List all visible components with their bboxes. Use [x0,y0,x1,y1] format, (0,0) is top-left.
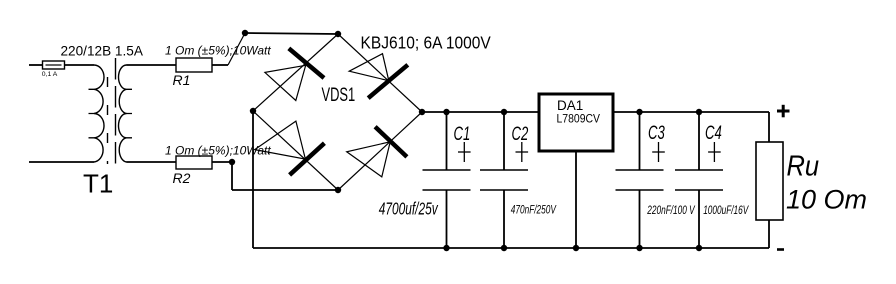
wire primary bottom lead [29,161,94,163]
capacitor C3 plates [616,170,664,190]
wire plus rail left segment [422,111,539,113]
node C3 top [636,109,642,115]
svg-text:VDS1: VDS1 [322,85,356,106]
label C2 polarity plus [516,142,529,162]
diode VD1 upper-left [265,48,324,100]
wire bridge edge top-left [253,34,338,111]
node bridge left vertex [250,108,256,114]
wire R2 to bottom AC node [232,189,338,191]
svg-text:L7809CV: L7809CV [557,113,601,126]
regulator DA1 box [539,94,613,151]
wire top AC rail [245,33,338,34]
svg-text:T1: T1 [83,169,113,199]
capacitor C2 bottom wire [503,190,505,248]
diode VD2 upper-right [349,54,408,98]
node junction dots [229,30,702,251]
svg-text:C3: C3 [648,123,665,144]
svg-text:DA1: DA1 [557,98,583,113]
node bridge bottom vertex [335,187,341,193]
svg-text:220nF/100 V: 220nF/100 V [646,204,695,217]
wire R2 right stub [212,161,232,163]
node R1 top rail junction [242,30,248,36]
node C2 bottom [501,245,507,251]
node bridge right vertex [419,109,425,115]
node C1 top [443,109,449,115]
capacitor C3 top wire [639,112,641,170]
diode VD4 lower-right [347,127,407,177]
resistor R2 body [176,156,212,169]
capacitor C4 plates [675,170,723,190]
svg-text:1 Om (±5%);10Watt: 1 Om (±5%);10Watt [165,144,271,158]
svg-text:C4: C4 [705,123,722,144]
svg-text:1 Om (±5%);10Watt: 1 Om (±5%);10Watt [165,44,271,58]
svg-text:Ru: Ru [787,149,820,182]
wire bottom minus rail [253,247,769,249]
wire secondary bottom to R2 [127,161,177,163]
wire bridge edge bottom-left [253,111,338,190]
wire minus drop from left vertex [252,111,254,248]
svg-text:KBJ610; 6A 1000V: KBJ610; 6A 1000V [361,32,492,52]
svg-text:10 Om: 10 Om [786,185,867,215]
label C1 polarity plus [458,142,471,162]
wire bridge edge top-right [338,34,422,112]
capacitor C4 bottom wire [698,190,700,248]
svg-text:C2: C2 [512,124,529,145]
node DA1 ground [573,245,579,251]
label plus output terminal [777,105,790,118]
svg-text:470nF/250V: 470nF/250V [511,204,557,217]
svg-text:1000uF/16V: 1000uF/16V [703,204,749,217]
capacitor C4 top wire [698,112,700,170]
label C3 polarity plus [652,142,665,162]
capacitor C2 top wire [503,112,505,170]
wire R2 down [231,162,233,190]
node C2 top [501,109,507,115]
transformer T1 primary winding [94,65,104,162]
node C3 bottom [636,245,642,251]
capacitor C1 top wire [446,112,448,170]
transformer core [108,58,116,164]
svg-text:4700uf/25v: 4700uf/25v [379,199,439,219]
wire secondary top to R1 [127,64,177,66]
capacitor C1 bottom wire [446,190,448,248]
wire bridge edge bottom-right [338,112,422,190]
label minus output terminal [777,248,784,251]
node C4 top [696,109,702,115]
wire DA1 ground pin [575,151,577,248]
wire R1 right stub [212,64,228,66]
svg-text:220/12B 1.5A: 220/12B 1.5A [61,43,144,58]
fuse FU1 0,1A [43,61,65,69]
capacitor C3 bottom wire [639,190,641,248]
svg-text:0,1 A: 0,1 A [42,71,58,78]
wire fuse to transformer [65,64,95,66]
wire diagonal R1 to top node [228,33,245,65]
label C4 polarity plus [708,142,721,162]
resistor R1 body [176,58,212,72]
wire load to bottom rail [768,220,770,248]
svg-text:C1: C1 [454,124,471,145]
load resistor Ru body [756,142,783,220]
node C4 bottom [696,245,702,251]
wire plus rail right segment [613,111,769,113]
node bridge top vertex [335,31,341,37]
svg-text:R2: R2 [173,170,191,186]
node R2 junction [229,159,235,165]
capacitor C1 plates [423,170,471,190]
diode VD3 lower-left [255,121,325,175]
svg-text:R1: R1 [173,72,191,88]
wire primary top lead [29,64,43,66]
transformer T1 secondary winding [119,65,127,162]
wire plus rail drop to load [768,112,770,142]
node C1 bottom [443,245,449,251]
capacitor C2 plates [480,170,528,190]
